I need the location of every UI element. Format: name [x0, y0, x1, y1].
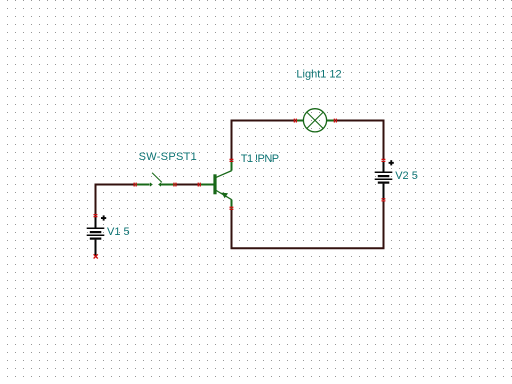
pin junction T1 emitter [230, 207, 234, 210]
polarity plus V1 [101, 215, 106, 220]
pin junction switch left [134, 183, 137, 187]
battery V1 [87, 217, 105, 256]
label T1 !PNP [241, 153, 279, 165]
svg-text:V2 5: V2 5 [395, 170, 418, 182]
pin junction lamp left [294, 119, 297, 123]
pin junction V1 positive [94, 214, 98, 217]
pin junction V2 positive [382, 159, 386, 162]
pin junction lamp right [334, 119, 337, 123]
pin junction T1 collector [230, 159, 234, 162]
wire net A: V1 positive to switch SW-SPST1 left pin [96, 185, 137, 217]
unconnected pin marker V1 negative [94, 254, 98, 258]
label V2 5 [395, 170, 418, 182]
label Light1 12 [296, 68, 341, 80]
wire net C: T1 collector to lamp Light1 left pin [232, 121, 297, 162]
svg-text:T1 !PNP: T1 !PNP [241, 153, 279, 165]
wire net D: lamp Light1 right pin to V2 positive [334, 121, 384, 161]
pin junction T1 base [198, 183, 201, 187]
svg-text:Light1 12: Light1 12 [296, 68, 341, 80]
pin junction V2 negative [382, 198, 386, 201]
label SW-SPST1 [139, 151, 197, 163]
battery V2 [375, 161, 393, 201]
wire net E: V2 negative to T1 emitter [232, 201, 384, 249]
lamp Light1 [296, 109, 334, 132]
switch SW-SPST1 [135, 173, 176, 187]
svg-text:SW-SPST1: SW-SPST1 [139, 151, 197, 163]
polarity plus V2 [389, 160, 394, 165]
transistor T1 (PNP) [200, 161, 232, 209]
svg-text:V1 5: V1 5 [107, 226, 130, 238]
label V1 5 [107, 226, 130, 238]
pin junction switch right [173, 183, 176, 187]
wire net B: switch SW-SPST1 right pin to T1 base [174, 184, 200, 186]
